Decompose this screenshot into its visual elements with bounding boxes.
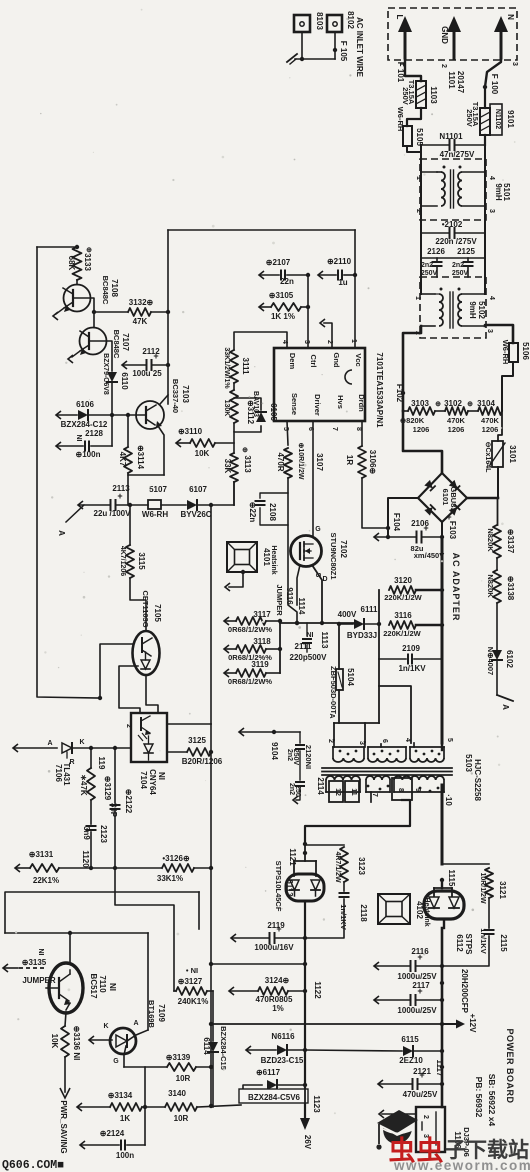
svg-text:W6-RH: W6-RH [396,107,405,132]
svg-text:PWR_SAVING: PWR_SAVING [59,1100,68,1153]
svg-text:2108: 2108 [268,503,277,521]
wire main 12V rail down [443,919,445,928]
svg-text:1000u/25V: 1000u/25V [397,972,437,981]
svg-text:⊕3138: ⊕3138 [506,576,515,601]
wire bridge left to F104 [388,498,418,537]
svg-text:STPS10L45CF: STPS10L45CF [274,861,283,912]
resistor 3133 68K [73,247,82,280]
wire sense resistor rail [279,621,281,673]
wire IC pin4 to 3111 [234,332,287,350]
svg-text:3120: 3120 [394,576,412,585]
svg-text:7: 7 [331,427,338,431]
svg-text:Drdn: Drdn [357,394,366,412]
svg-text:2n2: 2n2 [452,262,464,269]
svg-text:PB: 56932: PB: 56932 [474,1077,484,1118]
svg-text:2109: 2109 [402,644,420,653]
svg-text:BAV103: BAV103 [252,391,259,417]
svg-text:⊕2124: ⊕2124 [100,1129,125,1138]
svg-text:1114: 1114 [297,598,306,615]
svg-text:·10: ·10 [444,794,453,806]
svg-text:250V: 250V [292,749,299,766]
svg-text:Driver: Driver [313,394,322,416]
resistor 3115 4K7/1206 [129,505,131,545]
transformer 5101 [421,171,437,173]
svg-text:0R68/1/2W%: 0R68/1/2W% [228,625,273,634]
wire 7107 base to zener [89,341,112,371]
svg-text:3n9: 3n9 [82,826,91,840]
capacitor 2118 1n/1KV [343,882,345,891]
svg-text:N⊕4007: N⊕4007 [486,647,495,675]
svg-text:1: 1 [415,176,422,180]
svg-text:BZX284-C15: BZX284-C15 [219,1026,228,1070]
svg-text:33K: 33K [223,459,232,474]
svg-text:G: G [315,526,321,533]
svg-text:2111: 2111 [295,642,312,651]
pin GND arrow [453,30,456,58]
connector 1101 dashed box [388,8,517,60]
zener 6114 BZX284-C15 [212,991,214,1041]
wire lower-left loop [5,892,199,933]
snubber wire to 3121 [442,863,489,865]
svg-text:BZX284-C12: BZX284-C12 [61,420,108,429]
svg-text:4102: 4102 [415,901,424,919]
svg-text:BZD23-C15: BZD23-C15 [261,1056,304,1065]
svg-text:+: + [276,924,281,934]
transistor 7108 BC848C [64,285,91,312]
svg-text:3115: 3115 [137,552,146,570]
diode 6102 G4007 [496,603,498,650]
svg-text:10R: 10R [176,1074,191,1083]
resistor 3111 33K1/2W/1% 130K [230,350,238,383]
svg-text:3: 3 [511,62,518,66]
svg-text:470R0805: 470R0805 [256,995,293,1004]
svg-text:Q606.COM■: Q606.COM■ [2,1159,64,1172]
svg-text:130K: 130K [223,400,230,417]
svg-text:⊕: ⊕ [242,447,248,454]
svg-text:7105: 7105 [153,604,162,622]
transformer 5101 shield dashed [420,159,486,220]
svg-text:250V: 250V [401,87,410,105]
transformer 5103 secondary windings [325,780,327,792]
wire 5102 rails [420,258,422,294]
svg-text:6115: 6115 [401,1035,419,1044]
svg-text:•3126⊕: •3126⊕ [162,854,190,863]
svg-text:470u/25V: 470u/25V [403,1090,438,1099]
svg-text:BZX79-C6V8: BZX79-C6V8 [102,353,109,395]
wire IC pin 2 gnd [324,323,332,348]
svg-text:2: 2 [415,209,422,213]
svg-text:2118: 2118 [359,904,368,922]
svg-text:3111: 3111 [241,358,250,375]
svg-text:5: 5 [446,738,453,742]
svg-text:1123: 1123 [312,1095,321,1113]
transformer pin boxes 12 11 [329,781,343,802]
svg-text:2n2: 2n2 [421,262,433,269]
IC 7101 TEA1533AP box [274,348,365,421]
wire bridge top to F102 line [403,411,442,473]
svg-text:GND: GND [440,26,449,44]
svg-text:6112: 6112 [455,934,464,952]
svg-text:⊕2122: ⊕2122 [124,789,133,814]
svg-text:www.eeworm.com: www.eeworm.com [393,1158,530,1172]
svg-text:BC337-40: BC337-40 [171,379,180,413]
svg-text:2: 2 [422,1115,429,1119]
svg-text:K: K [103,1023,108,1030]
heatsink 4101 [227,542,257,572]
wire 7105 gate [100,644,133,698]
svg-text:11: 11 [350,788,357,796]
transformer 5103 core [322,767,452,769]
svg-text:4101: 4101 [262,548,271,566]
wire 5102 pin3 to 5106 [485,325,513,343]
svg-text:33K1%: 33K1% [157,874,183,883]
svg-text:BYV26C: BYV26C [180,510,211,519]
inductor 5105 W6-RH [403,126,412,146]
svg-text:D: D [322,576,327,583]
svg-text:7107: 7107 [121,333,130,351]
svg-text:2125: 2125 [457,247,475,256]
inductor 5106 W6-RH [509,343,518,362]
svg-text:1u: 1u [338,278,347,287]
svg-text:1K 1%: 1K 1% [271,312,295,321]
svg-text:5101: 5101 [502,183,511,201]
svg-text:NI: NI [307,632,314,639]
svg-text:1000u/16V: 1000u/16V [254,943,294,952]
resistor 3129 47K column [90,748,92,768]
svg-text:3103: 3103 [411,399,429,408]
wire 7105 source to opto [119,666,140,713]
fuse 9101 N1102 [484,87,486,108]
svg-text:A: A [57,530,66,536]
svg-text:A: A [47,740,52,747]
svg-text:3106⊕: 3106⊕ [368,450,377,475]
wire 400V node / drain line [280,622,358,624]
svg-text:W6-RH: W6-RH [142,510,168,519]
svg-text:Hvs: Hvs [336,395,345,409]
dual diode 6113 STPS10L45CF [294,860,316,862]
svg-text:A: A [328,713,335,718]
svg-text:9: 9 [414,788,421,792]
wire 5102 pin2 to F102 node [403,326,421,411]
svg-text:AC INLET WIRE: AC INLET WIRE [355,17,364,78]
svg-text:5105: 5105 [415,128,424,146]
svg-text:6113: 6113 [285,879,294,897]
svg-text:⊕2110: ⊕2110 [327,257,352,266]
svg-text:K: K [79,739,84,746]
capacitor 2122 [114,748,116,803]
svg-text:3: 3 [486,329,493,333]
svg-text:1120: 1120 [81,850,90,868]
thyristor 7109 BT169B [110,1028,136,1054]
svg-text:1206: 1206 [448,425,465,434]
wire sense to source node [288,478,297,623]
svg-text:•2102: •2102 [442,220,463,229]
resistor 3114 4K7 [127,415,129,447]
svg-text:Vcc: Vcc [354,353,363,366]
inductor 5104 ZBF503D-00T [338,624,340,669]
shunt regulator 7106 TL431 row [13,744,18,752]
svg-text:⊕3129: ⊕3129 [103,776,112,801]
pin N arrow [500,30,503,58]
svg-text:5107: 5107 [149,485,167,494]
wire mosfet source [297,565,300,605]
wire 5106 to resistor row [502,362,513,411]
svg-text:+: + [417,986,422,996]
svg-text:9104: 9104 [270,742,279,760]
svg-text:3116: 3116 [394,611,412,620]
svg-text:⊕3139: ⊕3139 [166,1053,191,1062]
svg-text:3125: 3125 [188,736,206,745]
svg-text:HJC-S2258: HJC-S2258 [473,759,482,801]
svg-text:2106: 2106 [411,519,429,528]
capacitor 2123 3n9 [90,800,92,824]
svg-text:2n2: 2n2 [286,749,293,761]
bridge rectifier 6101 GBU8J [418,473,467,522]
capacitor 2114 2n2/250V [296,781,304,783]
svg-text:4K7/1206: 4K7/1206 [119,546,126,576]
svg-text:N1102: N1102 [494,109,501,129]
svg-text:7104: 7104 [139,771,148,789]
svg-text:6106: 6106 [76,400,94,409]
wire x145 vertical [144,1067,146,1145]
svg-text:8103: 8103 [315,12,324,30]
svg-text:9mH: 9mH [468,301,477,319]
svg-text:⊖Cx164L: ⊖Cx164L [484,442,491,473]
svg-text:⊕: ⊕ [86,247,92,254]
transformer 5103 primary windings [332,747,334,758]
svg-text:SB: 56922 x4: SB: 56922 x4 [487,1074,497,1127]
wire to transformer pins 2,3 [334,722,379,724]
svg-text:BYD33J: BYD33J [347,631,377,640]
wire opto LED return / 3125 [167,751,187,753]
svg-text:4: 4 [404,738,411,742]
svg-text:F 101: F 101 [396,62,405,83]
svg-text:1%: 1% [272,1004,284,1013]
transistor 7103 BC337-40 [136,401,164,429]
svg-text:2128: 2128 [85,429,103,438]
svg-text:2126: 2126 [427,247,445,256]
watermark graduation cap [377,1110,418,1133]
bus 22u W6-RH BYV26C [78,501,83,509]
wire connector to left [382,1113,416,1115]
wire 8102 down / F105 node [334,32,336,59]
svg-text:7108: 7108 [110,279,119,297]
dual diode 6112 STPS20H200CFP [441,880,443,888]
svg-text:3140: 3140 [168,1089,186,1098]
svg-text:26V: 26V [303,1135,312,1150]
wire snubber to pin 4 [379,686,411,743]
capacitor 2108 22n bypass [260,493,288,498]
svg-text:7106: 7106 [54,764,63,782]
wire top left [37,246,77,248]
wire 7108 base [73,298,94,312]
svg-text:1: 1 [414,296,421,300]
resistor 3136 10K NI [65,1012,66,1026]
transformer polarity dots top [339,750,342,753]
svg-text:B20R/1206: B20R/1206 [182,757,223,766]
wire left rail [37,247,100,698]
svg-text:1n/1KV: 1n/1KV [398,664,426,673]
svg-text:3: 3 [303,340,310,344]
svg-text:L: L [395,15,404,20]
svg-text:JUMPER: JUMPER [275,584,284,616]
svg-text:N820K: N820K [486,528,495,552]
svg-text:3107: 3107 [315,453,324,471]
svg-text:3124⊕: 3124⊕ [265,976,290,985]
bus 1107 [77,1103,82,1111]
scan noise speckles [172,179,174,181]
svg-text:⊕6117: ⊕6117 [256,1068,281,1077]
svg-text:1101: 1101 [447,71,456,89]
svg-text:Gnd: Gnd [332,353,341,368]
svg-text:⊕3127: ⊕3127 [178,977,203,986]
svg-text:F 100: F 100 [490,74,499,95]
wire staircase to 3127 [115,868,174,991]
svg-text:⊕: ⊕ [435,401,441,408]
svg-text:N6116: N6116 [271,1032,295,1041]
svg-text:12: 12 [334,788,341,796]
wire collector rail 211 [210,505,212,724]
svg-text:NI: NI [37,949,44,956]
svg-text:7110: 7110 [98,975,107,993]
svg-text:3132⊕: 3132⊕ [129,298,154,307]
transistor 7110 BC517 [49,963,83,1013]
svg-text:⊕22n: ⊕22n [248,502,257,523]
svg-text:2n2: 2n2 [288,783,295,795]
svg-text:220K/1/2W: 220K/1/2W [383,629,421,638]
svg-text:2115: 2115 [499,934,508,952]
svg-text:⊕3137: ⊕3137 [506,529,515,554]
svg-text:A: A [133,1020,138,1027]
svg-text:250V: 250V [465,109,474,127]
transformer 5102 shield dashed [420,277,486,338]
connector 8102 [327,15,342,32]
svg-text:0R68/1/2W%: 0R68/1/2W% [228,677,273,686]
svg-text:1K: 1K [120,1114,130,1123]
svg-text:470R: 470R [276,452,285,471]
svg-text:119: 119 [97,757,106,770]
capacitor 2111 220p500V NI [306,623,308,636]
wire mosfet drain [312,565,322,623]
svg-text:+: + [117,491,122,501]
svg-text:7109: 7109 [157,1004,166,1022]
svg-text:+: + [417,952,422,962]
svg-text:N820K: N820K [486,574,495,598]
svg-text:7101TEA1533AP/N1: 7101TEA1533AP/N1 [375,352,384,428]
svg-text:3119: 3119 [251,660,269,669]
svg-text:BZX284-C5V6: BZX284-C5V6 [248,1093,301,1102]
svg-text:⊕3134: ⊕3134 [108,1091,133,1100]
svg-text:10R: 10R [174,1114,189,1123]
transistor 7107 BC848C [80,328,107,355]
bus lower left [15,864,20,872]
svg-text:⊕: ⊕ [467,401,473,408]
svg-text:9mH: 9mH [494,183,503,201]
svg-text:8: 8 [355,427,362,431]
svg-text:CET1103G: CET1103G [141,590,150,627]
svg-text:3113: 3113 [243,455,252,473]
svg-text:AC ADAPTER: AC ADAPTER [451,553,461,622]
svg-text:NI: NI [75,435,82,442]
svg-text:W6-RH: W6-RH [501,340,510,365]
svg-text:6: 6 [381,739,388,743]
svg-text:4: 4 [488,176,495,180]
heatsink 4102 [378,894,410,924]
svg-text:+: + [153,351,158,361]
svg-text:10K: 10K [50,1034,59,1049]
svg-text:BC848C: BC848C [112,330,121,359]
connector 1106 DJ3P [416,1107,445,1152]
svg-text:3: 3 [488,209,495,213]
svg-text:G: G [113,1058,119,1065]
PWR_SAVING output [64,1057,66,1092]
wire filter rail right [484,145,486,258]
svg-text:N: N [506,14,515,20]
svg-text:Dem: Dem [288,353,297,370]
svg-text:⊕10R/1/2W: ⊕10R/1/2W [297,443,304,480]
svg-text:400V: 400V [338,610,357,619]
svg-text:POWER BOARD: POWER BOARD [505,1029,515,1104]
svg-text:470K: 470K [447,416,466,425]
svg-text:3101: 3101 [508,445,517,463]
svg-text:• NI: • NI [186,966,198,975]
svg-text:6114: 6114 [202,1037,211,1055]
svg-text:7: 7 [371,793,378,797]
wire IC pin6 gate [312,421,314,536]
label box BZX284-C5V6 [239,1089,308,1103]
svg-text:22K1%: 22K1% [33,876,59,885]
svg-text:1n/1KV: 1n/1KV [479,928,488,953]
svg-text:⊕100n: ⊕100n [76,450,101,459]
resistor 3112 130K [233,383,235,390]
wire Vcc rail down to IC pin 1 [354,230,356,348]
svg-text:∗47K: ∗47K [79,774,88,796]
svg-text:6110: 6110 [120,372,129,390]
svg-text:220K/1/2W: 220K/1/2W [384,593,422,602]
wire 7110 collector [69,933,71,963]
svg-text:47K: 47K [133,317,148,326]
wire secondary pin9 to rectifier [305,800,410,844]
svg-text:⊕3135: ⊕3135 [22,958,47,967]
svg-text:9116: 9116 [285,587,294,605]
svg-text:8102: 8102 [346,11,355,29]
svg-text:2EZ10: 2EZ10 [399,1056,423,1065]
transformer 5102 [421,293,435,295]
svg-text:F 105: F 105 [339,41,348,62]
wire filter rail left [420,145,422,258]
diode 6105 BAV103 [234,423,261,432]
svg-text:ZBF503D-00T: ZBF503D-00T [329,666,338,714]
svg-text:NI: NI [157,772,166,780]
wire +12V bus y1024 [211,1023,442,1025]
transformer pin 10 wire [441,785,444,864]
ground [287,54,297,62]
wire bridge bottom to F103 [441,522,443,537]
resistor 3121 10R/1/2W [485,868,493,898]
svg-text:STU9NC80Z1: STU9NC80Z1 [329,532,338,579]
capacitor 2106 82u/450V [374,533,379,541]
wire N to fuse F100 [485,58,501,87]
resistor 3106 1R on pin 8 [361,421,363,446]
svg-text:220p500V: 220p500V [290,653,328,662]
resistor 3113 33K [233,432,235,453]
svg-text:1115: 1115 [447,870,456,887]
wire bridge right to 3101 line [467,497,498,500]
wire 6113 output [304,901,306,938]
svg-text:20H200CFP: 20H200CFP [460,969,469,1014]
svg-text:68K: 68K [67,256,76,271]
svg-text:1n/1KV: 1n/1KV [339,904,348,929]
